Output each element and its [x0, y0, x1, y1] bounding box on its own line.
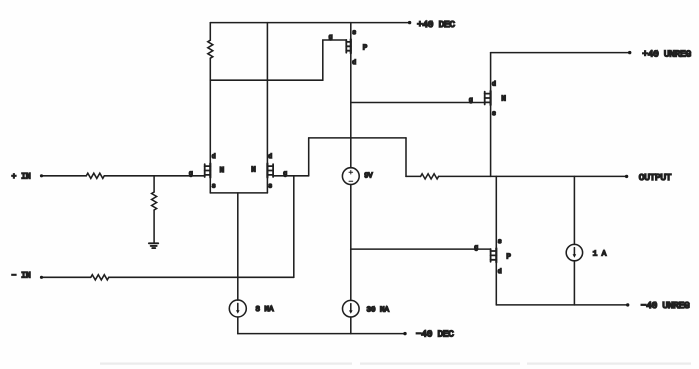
- svg-text:8 MA: 8 MA: [256, 306, 275, 314]
- current source I2 30 MA: [343, 300, 360, 317]
- node +40 UNREG endpoint dot: [628, 51, 631, 54]
- svg-text:g: g: [329, 34, 333, 41]
- wire +IN line: [42, 175, 87, 177]
- svg-text:s: s: [492, 110, 496, 117]
- svg-text:P: P: [363, 45, 368, 53]
- node -IN endpoint dot: [40, 276, 43, 279]
- wire -IN riser to Q3 gate: [293, 176, 295, 277]
- wire 8MA branch upper: [237, 193, 239, 300]
- wire gate bus horizontal y80: [210, 79, 322, 81]
- svg-text:−40 UNREG: −40 UNREG: [641, 300, 690, 311]
- node -40 UNREG endpoint dot: [626, 303, 629, 306]
- wire -40 UNREG rail: [496, 304, 628, 306]
- wire Q3 source down: [266, 178, 268, 193]
- wire riser gate-bus to y138: [308, 138, 310, 176]
- svg-text:d: d: [352, 59, 356, 66]
- svg-text:s: s: [352, 29, 356, 36]
- wire Q1 source to rail / drain down to 9V: [350, 23, 352, 168]
- wire x405 drop to output resistor: [405, 138, 407, 177]
- svg-text:g: g: [474, 244, 478, 251]
- scan artifact stripe bottom: [100, 363, 691, 365]
- node -40 DEC endpoint dot: [403, 332, 406, 335]
- wire Q2 source down: [209, 178, 211, 193]
- wire diff sources rail: [210, 192, 267, 194]
- svg-text:g: g: [469, 96, 473, 103]
- wire y138 horizontal: [309, 137, 406, 139]
- resistor R-load (drain load of diff pair): [208, 40, 213, 58]
- svg-text:+ IN: + IN: [12, 173, 31, 182]
- node OUTPUT endpoint dot: [625, 175, 628, 178]
- wire OUTPUT line left: [406, 175, 421, 177]
- svg-text:+40 DEC: +40 DEC: [417, 19, 455, 30]
- svg-text:− IN: − IN: [12, 272, 31, 281]
- wire 1A branch upper: [573, 176, 575, 244]
- transistor Q4 N-channel upper right: [485, 91, 491, 105]
- node +40 DEC endpoint dot: [408, 21, 411, 24]
- resistor R +IN series: [86, 173, 104, 178]
- svg-text:P: P: [506, 254, 511, 262]
- svg-text:s: s: [212, 182, 216, 189]
- slashed zeros overlay: [372, 20, 658, 336]
- battery V1 9V: [342, 168, 359, 185]
- resistor R shunt to ground: [152, 192, 157, 210]
- wire -IN line: [42, 276, 91, 278]
- svg-text:1 A: 1 A: [593, 251, 607, 259]
- wire top +40 DEC rail: [210, 22, 410, 24]
- wire bottom -40 DEC rail: [238, 333, 406, 335]
- wire right diff drain to rail: [266, 23, 268, 164]
- wire Q5 source up to OUTPUT: [495, 176, 497, 248]
- svg-text:s: s: [498, 238, 502, 245]
- transistor Q2 N-channel left of diff pair: [205, 164, 211, 178]
- svg-text:s: s: [268, 182, 272, 189]
- wire Q4 source to OUTPUT: [490, 105, 492, 176]
- wire 30MA to bottom rail: [350, 317, 352, 334]
- svg-text:d: d: [498, 268, 502, 275]
- wire +IN to Q2 gate: [104, 175, 204, 177]
- wire lower P gate line: [351, 248, 491, 250]
- wire shunt branch upper: [153, 176, 155, 192]
- svg-text:9V: 9V: [364, 172, 373, 180]
- wire upper gate line to Q4: [351, 102, 485, 104]
- wire +40 UNREG rail: [491, 52, 631, 54]
- transistor Q1 P-channel top: [346, 39, 351, 53]
- current source I3 1 A: [566, 244, 582, 260]
- svg-text:d: d: [212, 153, 216, 160]
- svg-text:N: N: [220, 167, 225, 175]
- wire Q3 gate horizontal: [273, 175, 309, 177]
- transistor Q5 P-channel lower right: [491, 248, 497, 262]
- wire left load branch lower: [209, 58, 211, 163]
- wire -IN to riser: [109, 276, 294, 278]
- wire 9V to 30MA: [350, 185, 352, 301]
- resistor R -IN series: [91, 275, 109, 280]
- wire shunt branch lower: [153, 210, 155, 243]
- wire gate riser to top P: [323, 40, 347, 80]
- node +IN endpoint dot: [40, 174, 43, 177]
- svg-text:d: d: [492, 81, 496, 88]
- wire Q5 drain to -40 UNREG rail: [495, 262, 497, 305]
- svg-text:30 MA: 30 MA: [367, 306, 390, 314]
- svg-text:N: N: [251, 167, 256, 175]
- resistor R output: [421, 174, 439, 179]
- svg-text:N: N: [501, 95, 506, 103]
- svg-text:d: d: [268, 153, 272, 160]
- transistor Q3 N-channel right of diff pair (gate on right): [267, 164, 273, 178]
- wire 8MA to bottom rail: [237, 317, 239, 334]
- wire OUTPUT line right: [439, 175, 628, 177]
- wire 1A branch lower: [573, 261, 575, 305]
- svg-text:+40 UNREG: +40 UNREG: [642, 48, 691, 59]
- svg-text:−40 DEC: −40 DEC: [416, 329, 454, 340]
- ground: [149, 242, 158, 244]
- wire Q4 drain to +40 UNREG rail: [490, 53, 492, 91]
- current source I1 8 MA: [229, 300, 246, 317]
- wire left load branch upper: [209, 23, 211, 41]
- svg-text:OUTPUT: OUTPUT: [639, 172, 672, 183]
